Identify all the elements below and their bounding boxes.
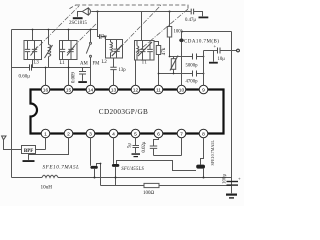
svg-text:11: 11: [156, 87, 161, 93]
svg-text:T1: T1: [142, 61, 148, 66]
svg-text:100k: 100k: [174, 29, 184, 34]
svg-text:100μ: 100μ: [223, 174, 228, 185]
svg-text:15: 15: [66, 87, 72, 93]
svg-text:10μ: 10μ: [218, 57, 226, 62]
svg-text:SFU455LS: SFU455LS: [121, 167, 144, 172]
svg-text:4700p: 4700p: [186, 80, 199, 85]
svg-text:4: 4: [112, 131, 115, 137]
svg-text:CDA10.7M(B): CDA10.7M(B): [184, 40, 219, 45]
svg-text:CD2003GP/GB: CD2003GP/GB: [99, 108, 148, 116]
svg-text:47k: 47k: [162, 47, 167, 55]
svg-text:5: 5: [134, 131, 137, 137]
svg-text:0.009: 0.009: [72, 72, 77, 83]
svg-text:BPF: BPF: [24, 149, 33, 154]
svg-text:9: 9: [202, 87, 205, 93]
svg-text:3: 3: [89, 131, 92, 137]
svg-text:7: 7: [180, 131, 183, 137]
svg-text:13: 13: [111, 87, 117, 93]
svg-text:+: +: [214, 45, 217, 50]
svg-text:3p: 3p: [102, 34, 107, 39]
svg-text:5000p: 5000p: [186, 63, 199, 68]
svg-text:2: 2: [67, 131, 70, 137]
svg-text:0.02μ: 0.02μ: [142, 141, 147, 152]
svg-text:2SC1815: 2SC1815: [69, 21, 87, 26]
svg-text:L3: L3: [34, 61, 40, 66]
svg-text:10: 10: [179, 87, 185, 93]
svg-text:+: +: [238, 177, 241, 182]
svg-text:6: 6: [157, 131, 160, 137]
svg-text:L2: L2: [102, 60, 108, 65]
svg-text:1: 1: [44, 131, 47, 137]
svg-text:SFE10.7MA5L: SFE10.7MA5L: [43, 165, 80, 171]
svg-text:L1: L1: [60, 61, 66, 66]
svg-text:13p: 13p: [119, 68, 127, 73]
svg-text:AM: AM: [80, 62, 88, 67]
svg-text:16: 16: [43, 87, 49, 93]
svg-text:10uH: 10uH: [41, 184, 53, 190]
svg-text:0.47μ: 0.47μ: [185, 18, 196, 23]
svg-text:FM: FM: [93, 62, 101, 67]
svg-text:5μ: 5μ: [128, 143, 133, 148]
svg-text:100Ω: 100Ω: [143, 191, 155, 196]
svg-text:8: 8: [202, 131, 205, 137]
svg-text:SFE10.7MA5L: SFE10.7MA5L: [210, 140, 215, 166]
svg-text:14: 14: [88, 87, 94, 93]
svg-text:0.60μ: 0.60μ: [19, 74, 31, 79]
svg-text:12: 12: [133, 87, 139, 93]
